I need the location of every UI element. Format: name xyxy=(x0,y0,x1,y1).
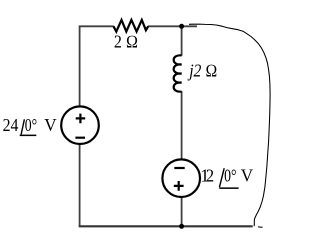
voltage source VS1 circle (24 V) xyxy=(61,106,99,144)
wire: middle vertical upper segment (node to coil) xyxy=(181,26,183,56)
node A (top junction dot) xyxy=(179,24,184,29)
svg-text:V: V xyxy=(241,165,253,185)
VS1 plus sign xyxy=(76,114,86,124)
wire: freehand loop from node A around right side to bottom xyxy=(189,24,270,226)
voltage source VS2 circle (12 V) xyxy=(162,159,200,197)
svg-text:2 Ω: 2 Ω xyxy=(114,32,138,52)
wire: left vertical branch and top horizontal left segment xyxy=(80,26,114,226)
VS2 angle underline xyxy=(219,187,238,189)
svg-text:2: 2 xyxy=(206,165,214,185)
node B (bottom junction dot) xyxy=(179,224,184,229)
wire: bottom horizontal xyxy=(79,225,253,227)
VS2 minus sign xyxy=(174,167,184,169)
VS2 plus sign xyxy=(174,181,184,191)
svg-text:0°: 0° xyxy=(224,165,236,185)
inductor L (j2 ohm) coil xyxy=(174,55,182,91)
VS1 angle slash xyxy=(21,119,24,134)
svg-text:j2 Ω: j2 Ω xyxy=(187,60,217,80)
svg-text:0°: 0° xyxy=(25,115,37,135)
wire: top horizontal right segment from resistor to node plus stub xyxy=(148,25,197,27)
VS1 minus sign xyxy=(75,137,85,139)
wire: freehand tail dash at bottom xyxy=(258,226,263,228)
wire: middle vertical lower segment (coil to bottom node) xyxy=(181,91,183,226)
VS2 angle slash xyxy=(219,168,224,187)
svg-text:24: 24 xyxy=(3,115,19,135)
svg-text:V: V xyxy=(44,115,56,135)
resistor R (2 ohm) zigzag xyxy=(114,20,149,32)
VS1 angle underline xyxy=(20,135,37,137)
